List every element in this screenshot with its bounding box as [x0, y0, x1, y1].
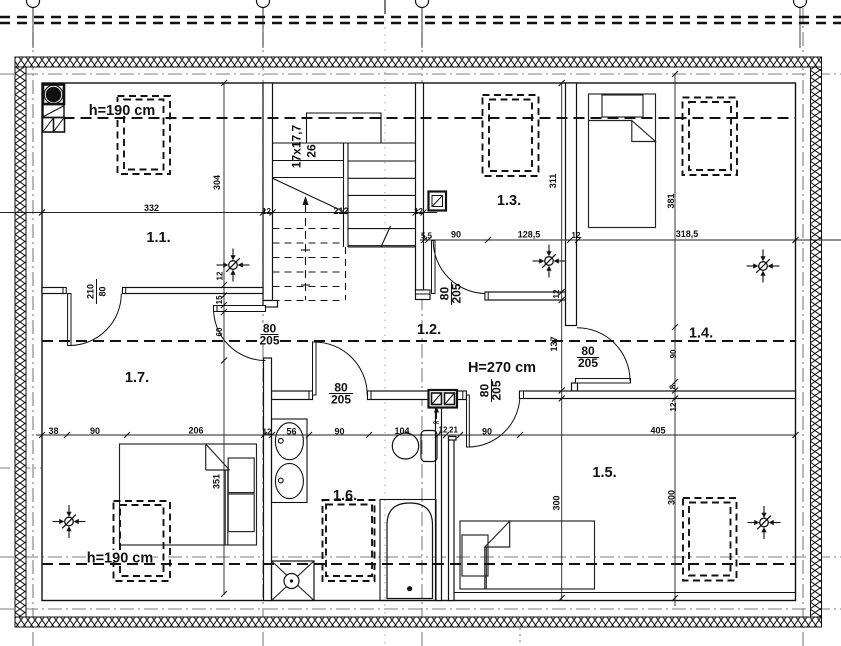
svg-text:304: 304 — [212, 175, 222, 190]
svg-text:137: 137 — [549, 336, 559, 351]
grid bubble x=800 — [794, 0, 807, 8]
svg-text:90: 90 — [90, 426, 100, 436]
svg-text:300: 300 — [667, 490, 677, 505]
svg-text:90: 90 — [451, 230, 461, 240]
svg-text:21: 21 — [449, 426, 458, 435]
washbasin 1 — [275, 423, 303, 460]
wall 1.4-1.5 divider — [520, 391, 796, 399]
stair break slash — [381, 226, 391, 247]
row C ticks — [39, 432, 799, 438]
stair landing — [307, 113, 382, 143]
vanity 1.6 — [272, 419, 308, 503]
wall 1.1/stairs — [263, 83, 273, 301]
svg-text:90: 90 — [482, 427, 492, 437]
door 1.5 swing arc — [468, 395, 520, 447]
roof height dashed line y=564 — [42, 563, 796, 565]
svg-text:80: 80 — [98, 286, 108, 296]
chimney flue box — [43, 105, 64, 118]
outer wall hatched band bottom — [15, 617, 822, 627]
chimney block — [43, 85, 65, 133]
skylight 1.4 — [683, 98, 738, 176]
wall 1.3/1.4 — [566, 83, 577, 326]
wall 1.7/1.6 — [264, 358, 272, 601]
door 1.3 swing arc — [433, 241, 486, 294]
grid axis vertical B x=263 — [262, 8, 264, 646]
svg-text:1.3.: 1.3. — [497, 193, 521, 209]
svg-text:H=270 cm: H=270 cm — [468, 360, 536, 376]
svg-text:405: 405 — [650, 426, 665, 436]
lamp 1.3 — [533, 245, 566, 278]
wall bath north right — [368, 391, 430, 400]
wall 1.3 south — [485, 292, 566, 300]
lamp 1.5 — [748, 506, 781, 539]
svg-text:56: 56 — [286, 427, 296, 437]
svg-text:205: 205 — [450, 283, 464, 303]
outer wall hatched band top — [15, 57, 822, 67]
wall 1.5 west — [449, 437, 455, 601]
svg-text:206: 206 — [188, 426, 203, 436]
svg-text:90: 90 — [334, 427, 344, 437]
outer wall hatched band left — [15, 67, 26, 617]
stair walking line — [305, 205, 307, 300]
grid axis vertical D x=803 — [802, 8, 804, 646]
label h=190 bottom — [87, 550, 154, 567]
vent shaft OC hall — [429, 390, 458, 419]
grid stub vertical x=520 bottom — [519, 628, 521, 646]
svg-text:12: 12 — [216, 271, 225, 280]
row B ticks — [421, 237, 799, 243]
svg-text:205: 205 — [490, 380, 504, 400]
lamp 1.7 — [53, 505, 86, 538]
svg-text:90: 90 — [669, 349, 678, 358]
svg-text:h=190 cm: h=190 cm — [89, 103, 156, 119]
dim chain vertical x=224 — [223, 83, 225, 595]
svg-text:1.1.: 1.1. — [146, 230, 170, 246]
svg-text:5,5: 5,5 — [421, 232, 433, 241]
bed 1.5 single — [460, 521, 595, 589]
stair flight edge right — [348, 246, 416, 248]
door 1.5 dim 80/205 rotated — [478, 379, 504, 402]
grid tick x=385 — [384, 0, 386, 14]
wall stairs/1.3 — [416, 83, 424, 290]
INTERIOR — [42, 83, 796, 601]
stair lower flight dashed treads — [273, 229, 346, 301]
svg-text:311: 311 — [548, 174, 558, 189]
shower — [272, 561, 315, 601]
dim chain vertical x=675 — [674, 74, 676, 606]
svg-text:1.6.: 1.6. — [333, 488, 357, 504]
svg-text:205: 205 — [259, 334, 279, 348]
dim chain vertical x=562 — [561, 83, 563, 601]
svg-text:1.5.: 1.5. — [592, 465, 616, 481]
svg-text:128,5: 128,5 — [518, 230, 541, 240]
svg-text:205: 205 — [578, 356, 598, 370]
grid axis vertical x=385 — [384, 12, 386, 646]
bed 1.4 single — [589, 94, 656, 228]
door 1.4 leaf — [576, 379, 631, 384]
dim row C y=435 — [36, 434, 796, 436]
toilet — [392, 431, 437, 462]
washbasin 2 — [275, 463, 303, 498]
grid axis vertical C x=422 — [421, 8, 423, 646]
roof height dashed line y=341 — [42, 340, 796, 342]
svg-text:205: 205 — [331, 393, 351, 407]
door 1.1 leaf — [68, 294, 71, 346]
door 1.7 dim 80/205 — [259, 322, 279, 348]
grid axis horizontal y=609 — [0, 608, 841, 610]
svg-text:1.4.: 1.4. — [689, 326, 713, 342]
svg-text:300: 300 — [552, 495, 562, 510]
svg-text:,15: ,15 — [215, 295, 224, 307]
grid axis horizontal y=557 — [0, 556, 841, 558]
svg-text:17x17,7: 17x17,7 — [290, 124, 304, 168]
door 1.6 dim 80/205 — [328, 381, 354, 407]
svg-text:212: 212 — [333, 206, 348, 216]
dim ticks — [39, 71, 799, 601]
svg-text:1.2.: 1.2. — [417, 322, 441, 338]
outer wall inner face — [42, 83, 796, 601]
roof height dashed line y=118 — [64, 117, 796, 119]
svg-text:12: 12 — [572, 231, 581, 240]
outer wall hatched band right — [811, 67, 822, 617]
stair treads right flight — [348, 160, 416, 162]
skylight 1.3 — [483, 95, 539, 176]
chain x562 ticks — [559, 80, 565, 601]
door 1.4 dim 80/205 — [576, 344, 601, 370]
grid bubble x=263 — [257, 0, 270, 8]
chimney vent boxes — [43, 118, 65, 133]
lamp 1.4 — [747, 250, 780, 283]
grid axis horizontal y=74 — [0, 73, 841, 75]
door 1.6 leaf — [313, 342, 317, 395]
door 1.5 leaf — [467, 395, 470, 447]
stair stringer — [343, 143, 345, 247]
door 1.7 swing arc — [214, 309, 266, 361]
door 1.7 leaf — [214, 306, 266, 312]
skylight 1.6 — [323, 500, 375, 581]
grid bubble x=33 — [27, 0, 40, 8]
svg-text:12: 12 — [669, 402, 678, 411]
svg-text:318,5: 318,5 — [676, 229, 699, 239]
room 1.5 south double line — [454, 592, 796, 594]
skylight 1.5 — [683, 498, 737, 581]
lamp 1.1 — [217, 249, 250, 282]
bed 1.7 double — [120, 444, 257, 545]
door 1.3 leaf — [432, 241, 436, 294]
grid axis vertical A x=33 — [32, 8, 34, 646]
skylight 1.1 — [118, 96, 171, 174]
DOORS — [68, 241, 631, 448]
bathtub — [380, 500, 436, 601]
svg-text:12: 12 — [439, 426, 448, 435]
door 1.1 swing arc — [69, 294, 121, 346]
skylight 1.7 — [114, 501, 171, 581]
grid stub horizontal y=468 — [0, 467, 42, 469]
chain x675 ticks — [672, 71, 678, 601]
svg-text:8: 8 — [669, 384, 678, 389]
vent box 1.3 — [429, 192, 447, 211]
row A ticks — [39, 210, 427, 216]
chain x224 ticks — [221, 80, 227, 597]
roof outline dashed double line top — [0, 17, 841, 23]
svg-text:12: 12 — [262, 207, 271, 216]
stair treads upper flight left — [273, 160, 344, 162]
svg-text:26: 26 — [305, 144, 319, 158]
svg-text:38: 38 — [48, 426, 58, 436]
bed 1.7 pillows — [228, 458, 254, 493]
label h=190 top — [89, 102, 156, 119]
svg-text:1.7.: 1.7. — [125, 370, 149, 386]
stair tread full line — [273, 142, 416, 144]
wall bath north left — [272, 391, 313, 400]
stair break line — [273, 179, 344, 212]
wall 1.2/1.5 left stub — [457, 391, 467, 400]
svg-text:381: 381 — [666, 193, 676, 208]
svg-text:351: 351 — [212, 474, 222, 489]
SKYLIGHTS dashed — [114, 95, 738, 581]
svg-text:104: 104 — [394, 426, 409, 436]
dim row B y=240 — [420, 239, 841, 241]
wall 1.1/1.7 right segment — [123, 288, 264, 294]
dim row A y=212.5 — [0, 212, 437, 214]
door 1.6 swing arc — [314, 342, 367, 395]
svg-text:60: 60 — [215, 327, 224, 336]
svg-text:h=190 cm: h=190 cm — [87, 551, 154, 567]
wall 1.6/shaft column — [436, 408, 442, 601]
svg-text:332: 332 — [144, 203, 159, 213]
wall corner 1.4 door — [572, 383, 578, 391]
STAIRS — [273, 113, 416, 301]
svg-text:12: 12 — [552, 289, 561, 298]
svg-text:12: 12 — [414, 207, 423, 216]
svg-text:210: 210 — [86, 284, 96, 299]
door 1.3 dim 80/205 rotated — [438, 282, 464, 305]
grid bubble x=422 — [416, 0, 429, 8]
svg-text:12: 12 — [263, 428, 272, 437]
door jamb caps — [63, 288, 524, 400]
door 1.1 dim 210/80 rotated fraction — [86, 279, 108, 304]
door 1.4 swing arc — [577, 328, 630, 381]
wall 1.1/1.7 left segment — [42, 288, 66, 294]
